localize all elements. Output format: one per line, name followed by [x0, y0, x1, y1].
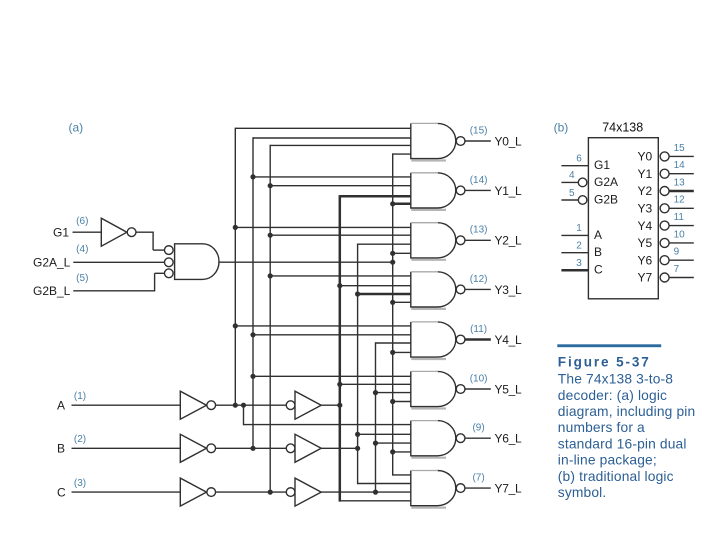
wire NAND N7 input 3 [340, 500, 412, 502]
svg-text:(13): (13) [470, 225, 488, 236]
svg-text:9: 9 [674, 247, 680, 258]
svg-text:(10): (10) [470, 373, 488, 384]
svg-text:(7): (7) [472, 473, 484, 484]
junction C to N5 [373, 390, 378, 395]
svg-text:6: 6 [576, 154, 582, 165]
junction B_L tap on B row [250, 446, 255, 451]
wire pin 10 [669, 242, 694, 244]
wire NAND N0 input 4 [393, 153, 412, 155]
svg-text:B: B [594, 245, 602, 259]
junction EN to N6 [390, 449, 395, 454]
NAND gate N1 top edge [411, 172, 438, 174]
NAND gate N2 top edge [411, 222, 438, 224]
svg-text:15: 15 [674, 143, 686, 154]
wire NAND N0 input 2 [253, 137, 412, 139]
svg-text:Y3: Y3 [638, 202, 653, 216]
wire enable EN from U2 output [219, 261, 393, 263]
junction B tap on B row [355, 446, 360, 451]
NAND gate N6 output bubble [456, 434, 465, 443]
wire NAND N4 input 2 [253, 334, 412, 336]
inverter U4 triangle [295, 391, 321, 419]
junction EN to N5 [390, 399, 395, 404]
NAND gate N4 output bubble [456, 335, 465, 344]
NAND gate N2 output bubble [456, 236, 465, 245]
svg-text:5: 5 [569, 188, 575, 199]
svg-text:diagram, including pin: diagram, including pin [558, 404, 696, 419]
svg-text:G2B: G2B [594, 192, 618, 206]
junction A_L lower tap [241, 403, 246, 408]
junction EN to N3 [390, 300, 395, 305]
svg-text:Y4_L: Y4_L [495, 333, 522, 347]
NAND gate N7 shadow [411, 507, 446, 509]
NAND gate N3 body [411, 272, 456, 307]
svg-text:(1): (1) [74, 391, 86, 402]
pin 12 bubble [660, 204, 669, 213]
wire NAND N7 input 1 [393, 474, 412, 476]
wire NAND N0 input 1 [235, 127, 411, 129]
junction EN to N4 [390, 350, 395, 355]
junction EN to N1 [390, 201, 395, 206]
svg-text:symbol.: symbol. [558, 485, 607, 500]
inverter U3 bubble [207, 401, 216, 410]
wire U1 output to bend [136, 231, 153, 233]
svg-text:Y0: Y0 [638, 150, 653, 164]
wire NAND N6 input 2 [358, 433, 412, 435]
NAND gate N7 output bubble [456, 484, 465, 493]
NAND gate N0 top edge [411, 122, 438, 124]
NAND gate N5 shadow [411, 407, 446, 409]
wire lane C_L vertical x=270 [269, 145, 271, 492]
NAND gate N1 shadow [411, 209, 446, 211]
wire NAND N1 input 2 [270, 185, 411, 187]
NAND gate N6 body [411, 421, 456, 456]
pin 11 bubble [660, 221, 669, 230]
svg-text:decoder: (a) logic: decoder: (a) logic [558, 388, 667, 403]
wire NAND N1 output [465, 189, 491, 191]
svg-text:G1: G1 [53, 226, 69, 240]
wire pin 7 [669, 277, 694, 279]
wire NAND N1 input 4 [393, 203, 412, 206]
svg-text:Y6: Y6 [638, 253, 653, 267]
NAND gate N4 body [411, 322, 456, 357]
NAND gate N4 shadow [411, 358, 446, 360]
pin 7 bubble [660, 273, 669, 282]
svg-text:C: C [57, 485, 66, 499]
junction A tap on A row [337, 403, 342, 408]
svg-text:Y1_L: Y1_L [495, 184, 522, 198]
svg-text:B: B [57, 442, 65, 456]
wire G2A_L input [73, 261, 164, 263]
svg-text:(3): (3) [74, 478, 86, 489]
NAND gate N5 body [411, 371, 456, 406]
wire A true output [321, 404, 340, 406]
wire NAND N3 input 4 [393, 301, 412, 303]
svg-text:C: C [594, 263, 603, 277]
svg-text:standard 16-pin dual: standard 16-pin dual [558, 436, 687, 451]
junction B to N6 [355, 432, 360, 437]
wire pin 5 stub [561, 199, 578, 201]
wire NAND N1 input 3 [340, 195, 412, 198]
inverter U6 triangle [295, 434, 321, 462]
wire NAND N4 input 4 [393, 351, 412, 353]
svg-text:G2B_L: G2B_L [33, 284, 71, 298]
wire NAND N2 input 4 [393, 252, 412, 254]
wire NAND N0 output [465, 140, 491, 142]
svg-text:(6): (6) [76, 216, 88, 227]
svg-text:2: 2 [576, 241, 582, 252]
junction B_L to N4 [250, 332, 255, 337]
svg-text:A: A [594, 228, 602, 242]
NAND gate N1 body [411, 173, 456, 208]
wire pin 6 stub [561, 165, 588, 167]
AND gate U2 input bubble 1 [164, 246, 173, 255]
svg-text:numbers for a: numbers for a [558, 420, 645, 435]
wire pin 12 [669, 207, 694, 209]
wire NAND N1 input 1 [253, 176, 412, 178]
wire NAND N6 input 1 [244, 424, 412, 426]
svg-text:4: 4 [569, 170, 575, 181]
wire pin 14 [669, 173, 694, 175]
NAND gate N7 body [411, 471, 456, 506]
svg-text:(b) traditional logic: (b) traditional logic [558, 469, 674, 484]
junction A to N3 [337, 283, 342, 288]
wire into AND gate bubble 1 [153, 249, 164, 251]
svg-text:Y6_L: Y6_L [495, 432, 522, 446]
wire pin 13 [669, 190, 694, 193]
svg-text:14: 14 [674, 160, 686, 171]
wire NAND N3 input 3 [358, 293, 412, 296]
svg-text:G1: G1 [594, 158, 610, 172]
svg-text:Y1: Y1 [638, 167, 653, 181]
wire NAND N7 input 2 [358, 483, 412, 485]
wire NAND N4 output [465, 338, 491, 341]
wire NAND N2 input 2 [270, 234, 411, 236]
junction C tap on C row [373, 490, 378, 495]
svg-text:in-line package;: in-line package; [558, 453, 657, 468]
wire G1 input [73, 231, 102, 233]
wire NAND N7 output [465, 487, 491, 489]
pin 14 bubble [660, 169, 669, 178]
NAND gate N1 output bubble [456, 186, 465, 195]
svg-text:Y0_L: Y0_L [495, 134, 522, 148]
wire C true output to NAND N7 input 3 [321, 491, 411, 493]
inverter U1 triangle [101, 218, 127, 246]
junction C_L tap on C row [268, 490, 273, 495]
NAND gate N3 top edge [411, 271, 438, 273]
wire NAND N2 input 3 [358, 243, 412, 245]
wire pin 3 stub [561, 269, 588, 272]
wire lane B vertical x=358 [357, 244, 359, 485]
junction C_L to N1 [268, 183, 273, 188]
junction A_L to N2 [233, 225, 238, 230]
junction A_L tap on A row [233, 403, 238, 408]
svg-text:Y3_L: Y3_L [495, 283, 522, 297]
NAND gate N6 shadow [411, 457, 446, 459]
junction B to N3 [355, 291, 360, 296]
NAND gate N2 shadow [411, 259, 446, 261]
svg-text:74x138: 74x138 [602, 121, 643, 135]
wire C input [72, 491, 181, 493]
IC U9 body [588, 138, 658, 299]
inverter U6 input bubble [286, 444, 295, 453]
pin 5 bubble [578, 196, 587, 205]
svg-text:(2): (2) [74, 434, 86, 445]
wire G2B_L input [73, 290, 154, 292]
svg-text:Y7_L: Y7_L [495, 482, 522, 496]
svg-text:A: A [57, 399, 65, 413]
svg-text:Y5: Y5 [638, 236, 653, 250]
wire lane A_L vertical x=235 [234, 128, 236, 406]
AND gate U2 input bubble 2 [164, 258, 173, 267]
wire pin 2 stub [561, 252, 588, 254]
svg-text:(9): (9) [472, 423, 484, 434]
svg-text:(b): (b) [554, 121, 569, 135]
inverter U7 bubble [207, 488, 216, 497]
svg-text:G2A_L: G2A_L [33, 256, 71, 270]
wire NAND N6 input 4 [393, 451, 412, 453]
svg-text:(11): (11) [470, 324, 487, 335]
wire B_L between inverters [216, 447, 287, 449]
junction A_L to N4 [233, 323, 238, 328]
wire bend up to AND input 3 [154, 273, 156, 291]
junction EN to N2 [390, 251, 395, 256]
junction B_L to N5 [250, 374, 255, 379]
NAND gate N3 shadow [411, 308, 446, 310]
svg-text:(12): (12) [470, 274, 488, 285]
wire NAND N5 output [465, 388, 491, 390]
figure caption text [558, 372, 696, 500]
wire NAND N3 input 2 [340, 285, 412, 287]
wire lane B_L vertical x=253 [252, 137, 254, 448]
NAND gate N7 top edge [411, 470, 438, 472]
pin 10 bubble [660, 238, 669, 247]
svg-text:The 74x138 3-to-8: The 74x138 3-to-8 [558, 372, 673, 387]
svg-text:11: 11 [674, 212, 685, 223]
pin 15 bubble [660, 152, 669, 161]
svg-text:13: 13 [674, 177, 686, 188]
svg-text:Y2_L: Y2_L [495, 234, 522, 248]
wire lane C vertical x=376 [375, 342, 377, 492]
wire A input [72, 404, 181, 406]
wire lane EN vertical x=393 [392, 153, 394, 475]
pin 4 bubble [578, 178, 587, 187]
wire B true output [321, 447, 357, 449]
wire NAND N5 input 1 [253, 375, 412, 377]
wire bend down to AND input 1 [152, 232, 154, 251]
svg-text:(5): (5) [76, 273, 88, 284]
inverter U5 bubble [207, 444, 216, 453]
svg-text:12: 12 [674, 195, 686, 206]
wire NAND N3 input 1 [270, 275, 411, 277]
wire NAND N4 input 1 [235, 325, 411, 327]
junction C to N6 [373, 441, 378, 446]
wire NAND N3 output [465, 288, 491, 290]
NAND gate N3 output bubble [456, 285, 465, 294]
wire B input [72, 447, 181, 449]
svg-text:G2A: G2A [594, 175, 618, 189]
NAND gate N5 top edge [411, 370, 438, 372]
inverter U3 triangle [180, 391, 206, 419]
wire pin 4 stub [561, 181, 578, 183]
NAND gate N0 output bubble [456, 137, 465, 146]
junction C_L to N2 [268, 233, 273, 238]
NAND gate N2 body [411, 223, 456, 258]
pin 9 bubble [660, 256, 669, 265]
svg-text:Y7: Y7 [638, 271, 653, 285]
svg-text:Y2: Y2 [638, 184, 653, 198]
wire into AND gate bubble 3 [155, 272, 165, 274]
NAND gate N0 shadow [411, 159, 446, 161]
NAND gate N0 body [411, 123, 456, 158]
junction C_L to N3 [268, 273, 273, 278]
wire pin 1 stub [561, 234, 588, 236]
inverter U8 input bubble [286, 488, 295, 497]
wire lane A_L lower vertical x=243 [243, 405, 245, 425]
AND gate U2 body [175, 244, 219, 280]
inverter U8 triangle [295, 478, 321, 506]
wire lane A vertical x=340 (bold) [339, 195, 342, 502]
wire pin 11 [669, 225, 694, 227]
wire NAND N5 input 4 [393, 401, 412, 403]
svg-text:7: 7 [674, 264, 680, 275]
wire pin 15 [669, 155, 694, 157]
NAND gate N5 output bubble [456, 385, 465, 394]
wire NAND N2 output [465, 239, 491, 241]
wire NAND N5 input 3 [376, 392, 412, 394]
svg-text:(a): (a) [69, 121, 84, 135]
NAND gate N4 top edge [411, 321, 438, 323]
svg-text:10: 10 [674, 229, 686, 240]
svg-text:(14): (14) [470, 175, 488, 186]
junction A to N5 [337, 382, 342, 387]
NAND gate N6 top edge [411, 420, 438, 422]
wire NAND N6 input 3 [376, 442, 412, 444]
wire NAND N5 input 2 [340, 383, 412, 385]
inverter U1 bubble [127, 228, 136, 237]
inverter U7 triangle [180, 478, 206, 506]
svg-text:1: 1 [576, 223, 582, 234]
wire NAND N0 input 3 [270, 144, 411, 146]
svg-text:(15): (15) [470, 125, 488, 136]
AND gate U2 input bubble 3 [164, 269, 173, 278]
wire C_L between inverters [216, 491, 287, 493]
wire NAND N6 output [465, 437, 491, 439]
wire NAND N4 input 3 [376, 342, 412, 344]
wire NAND N2 input 1 [235, 226, 411, 228]
junction EN source junction [390, 260, 395, 265]
wire A_L between inverters [216, 404, 287, 406]
inverter U4 input bubble [286, 401, 295, 410]
figure caption rule [557, 344, 661, 347]
svg-text:3: 3 [576, 258, 582, 269]
pin 13 bubble [660, 187, 669, 196]
junction B_L to N1 [250, 174, 255, 179]
svg-text:(4): (4) [76, 244, 88, 255]
svg-text:Y5_L: Y5_L [495, 382, 522, 396]
wire pin 9 [669, 259, 694, 261]
svg-text:Y4: Y4 [638, 219, 653, 233]
svg-text:Figure 5-37: Figure 5-37 [558, 354, 651, 369]
inverter U5 triangle [180, 434, 206, 462]
